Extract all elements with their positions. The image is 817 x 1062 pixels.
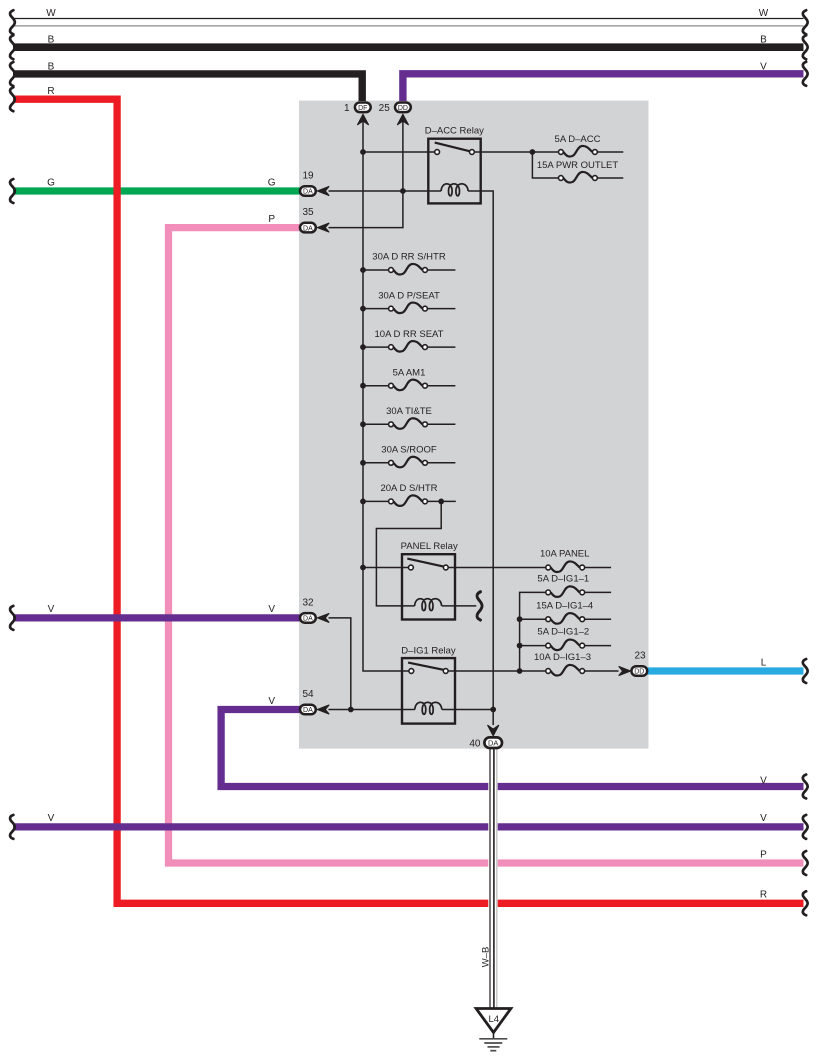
svg-text:1: 1 [344, 103, 350, 114]
D-ACC relay contact right [470, 150, 475, 155]
D-IG1 coil output wire [442, 709, 493, 711]
svg-text:30A S/ROOF: 30A S/ROOF [381, 445, 437, 456]
svg-text:19: 19 [302, 170, 314, 181]
wire 20A output to PANEL coil [376, 501, 441, 606]
svg-text:G: G [47, 177, 55, 188]
D-IG1 relay coil [415, 702, 442, 714]
W-B ground wire double line [490, 748, 497, 1008]
fuse 5A D-IG1-1 [537, 574, 611, 597]
connector DA pin 19 arrow [317, 186, 329, 195]
svg-text:V: V [48, 604, 55, 615]
PANEL relay box [402, 554, 455, 619]
svg-text:35: 35 [302, 207, 314, 218]
wire labels right [759, 8, 769, 901]
svg-text:20A D S/HTR: 20A D S/HTR [380, 483, 437, 494]
ground stem [493, 1033, 495, 1039]
wire V from DA54 [221, 710, 803, 787]
D-IG1 relay contact right [443, 669, 448, 674]
svg-text:PANEL Relay: PANEL Relay [401, 541, 458, 552]
svg-text:DA: DA [303, 225, 313, 232]
PANEL relay contact right [443, 565, 448, 570]
connector DA pin 54 oval [300, 689, 316, 714]
PANEL switch feed wire [363, 567, 409, 569]
wire B top 1 [13, 43, 804, 51]
ground L4 triangle [476, 1009, 511, 1033]
connector DF pin 1 oval [344, 103, 371, 114]
svg-text:30A D P/SEAT: 30A D P/SEAT [378, 290, 440, 301]
svg-text:10A D–IG1–3: 10A D–IG1–3 [534, 652, 591, 663]
svg-text:P: P [760, 849, 767, 860]
wire R long [13, 99, 804, 903]
fuse 15A PWR OUTLET [537, 160, 623, 182]
right edge break symbols [803, 10, 808, 915]
wire W top (white wire) [13, 19, 804, 26]
ground hatch [479, 1039, 507, 1051]
svg-text:L: L [761, 657, 767, 668]
node PANEL switch feed [360, 565, 366, 571]
svg-text:W: W [759, 8, 769, 19]
connector DA pin 32 arrow [317, 613, 329, 622]
connector DF pin 1 arrow [357, 114, 368, 125]
fuse 20A D S/HTR [360, 483, 456, 506]
svg-text:R: R [760, 890, 767, 901]
svg-text:5A D–IG1–2: 5A D–IG1–2 [537, 626, 589, 637]
svg-text:V: V [48, 813, 55, 824]
D-IG1 coil row wire from DA54 [329, 709, 415, 711]
svg-text:DD: DD [634, 669, 644, 676]
connector DA pin 35 oval [300, 207, 316, 232]
fuse 30A D P/SEAT [360, 290, 455, 313]
connector DD pin 25 arrow [397, 114, 408, 125]
svg-text:25: 25 [379, 103, 391, 114]
svg-text:15A D–IG1–4: 15A D–IG1–4 [536, 600, 593, 611]
wire P long [169, 228, 804, 863]
PANEL switch output wire [448, 567, 546, 569]
svg-text:5A D–IG1–1: 5A D–IG1–1 [537, 574, 589, 585]
svg-text:DA: DA [488, 739, 498, 748]
wire B top 2 to connector DF [13, 74, 362, 101]
fuse 10A D RR SEAT [360, 329, 455, 352]
wire V full bottom [13, 823, 804, 830]
node fuse bank top [530, 149, 536, 155]
node D-IG1 coil to DA40 [490, 707, 496, 713]
D-ACC relay coil [441, 184, 468, 196]
svg-text:DA: DA [303, 616, 313, 623]
svg-text:W: W [46, 8, 56, 19]
fuse 5A D-ACC [555, 134, 624, 156]
svg-text:V: V [760, 61, 767, 72]
fuse 30A D RR S/HTR [360, 252, 455, 275]
wire G to DA19 [13, 187, 303, 194]
fuse 15A D-IG1-4 [517, 600, 611, 623]
connector DA pin 40 arrow [488, 725, 499, 736]
left edge break symbols [10, 10, 15, 839]
node D-ACC switch feed [360, 149, 366, 155]
svg-text:B: B [48, 61, 55, 72]
svg-text:10A D RR SEAT: 10A D RR SEAT [375, 329, 444, 340]
fuse 5A D-IG1-2 [517, 626, 611, 650]
svg-text:B: B [48, 35, 55, 46]
svg-text:L4: L4 [489, 1014, 500, 1025]
svg-text:R: R [47, 86, 54, 97]
svg-text:V: V [760, 775, 767, 786]
fuse 30A TI&TE [360, 406, 455, 429]
connector DA pin 32 oval [300, 597, 316, 622]
DD25 branch to DA35 [329, 118, 403, 228]
svg-text:DD: DD [398, 105, 408, 112]
connector DD pin 23 arrow [619, 666, 631, 675]
D-ACC switch output wire [474, 151, 558, 153]
D-IG1 relay box [402, 658, 455, 724]
svg-text:P: P [268, 214, 275, 225]
node DA54 branch [348, 707, 354, 713]
node 20A output [438, 499, 444, 505]
svg-text:G: G [268, 177, 276, 188]
node DD25 coil junction [400, 188, 406, 194]
main bus from DF [363, 118, 409, 671]
connector DA pin 54 arrow [317, 705, 329, 714]
svg-text:32: 32 [302, 597, 314, 608]
svg-text:D–IG1 Relay: D–IG1 Relay [401, 646, 456, 657]
svg-text:DA: DA [303, 189, 313, 196]
connector DA pin 19 oval [300, 170, 316, 195]
svg-text:V: V [268, 604, 275, 615]
D-IG1 relay contact left [409, 669, 414, 674]
wire to 15A fuse [532, 152, 558, 178]
D-ACC switch feed wire [363, 151, 435, 153]
connector DD pin 23 oval [631, 651, 647, 676]
DA32 branch wire [329, 618, 351, 710]
PANEL relay coil [415, 599, 442, 611]
svg-text:30A TI&TE: 30A TI&TE [386, 406, 432, 417]
connector DD pin 25 oval [379, 103, 411, 114]
D-ACC coil output down to DA40 [468, 191, 493, 725]
wire labels left [46, 8, 56, 824]
fuse 30A S/ROOF [360, 445, 455, 468]
svg-text:40: 40 [469, 738, 481, 749]
svg-text:5A D–ACC: 5A D–ACC [555, 134, 601, 145]
svg-text:W–B: W–B [481, 947, 492, 968]
svg-text:DA: DA [303, 707, 313, 714]
PANEL relay blade [407, 559, 443, 567]
connector DA pin 35 arrow [317, 223, 329, 232]
fuse 10A PANEL [540, 548, 611, 572]
svg-text:B: B [760, 35, 767, 46]
svg-text:V: V [760, 813, 767, 824]
svg-text:V: V [268, 696, 275, 707]
svg-text:D–ACC Relay: D–ACC Relay [425, 126, 484, 137]
PANEL relay contact left [409, 565, 414, 570]
junction box body [299, 101, 649, 749]
D-IG1 relay blade [408, 663, 443, 670]
svg-text:30A D RR S/HTR: 30A D RR S/HTR [372, 252, 446, 263]
svg-text:23: 23 [634, 651, 646, 662]
svg-text:DF: DF [358, 105, 367, 112]
svg-text:54: 54 [302, 689, 314, 700]
D-ACC relay blade [435, 143, 470, 152]
connector DA pin 40 oval [469, 737, 502, 749]
fuse 10A D-IG1-3 [448, 652, 618, 676]
fuse 5A AM1 [360, 367, 455, 390]
svg-text:10A PANEL: 10A PANEL [540, 548, 589, 559]
right fuse bank bus [520, 592, 549, 671]
wire V top right to connector DD [403, 74, 804, 101]
D-ACC relay contact left [435, 150, 440, 155]
wire L cyan from DD23 [647, 667, 804, 674]
svg-text:15A PWR OUTLET: 15A PWR OUTLET [537, 160, 618, 171]
PANEL coil break symbol [477, 592, 482, 620]
D-ACC relay U1 box [428, 139, 480, 204]
wire V to DA32 [13, 614, 303, 621]
PANEL coil output wire [442, 605, 477, 607]
svg-text:5A AM1: 5A AM1 [393, 367, 426, 378]
wire labels near box [268, 177, 276, 707]
D-ACC coil row wire from DA19 [329, 190, 442, 192]
